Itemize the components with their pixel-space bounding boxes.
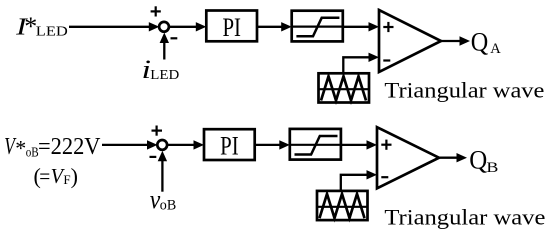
- svg-text:=: =: [39, 163, 50, 188]
- wire limiter to comparator (row 2): [341, 144, 367, 146]
- wire G1 to comparator minus input: [343, 57, 369, 73]
- wire input to summing junction S2: [102, 144, 148, 146]
- limiter (saturation) block row 2: [290, 129, 341, 160]
- svg-text:LED: LED: [36, 25, 68, 40]
- svg-text:A: A: [490, 41, 501, 57]
- wire input to summing junction: [69, 26, 150, 28]
- svg-text:oB: oB: [26, 146, 39, 161]
- label (=VF): [34, 163, 78, 188]
- svg-text:Triangular wave: Triangular wave: [384, 205, 545, 230]
- plus sign at summing junction S2: [152, 126, 163, 136]
- svg-text:*: *: [15, 136, 26, 161]
- svg-text:Triangular wave: Triangular wave: [384, 77, 544, 102]
- minus sign inside comparator U2: [383, 59, 390, 61]
- triangular wave generator box G1: [319, 73, 370, 102]
- label QA: [471, 27, 501, 57]
- svg-text:PI: PI: [220, 132, 239, 161]
- svg-text:PI: PI: [222, 13, 241, 42]
- label V*oB=222V: [4, 134, 101, 161]
- svg-text:B: B: [486, 160, 498, 176]
- wire PI to limiter: [257, 26, 282, 28]
- output wire QB: [439, 157, 458, 159]
- label voB: [150, 185, 176, 214]
- comparator U4 (triangle): [377, 127, 439, 188]
- label QB: [469, 146, 498, 176]
- svg-text:oB: oB: [160, 197, 176, 213]
- feedback arrow iLED into S1: [163, 41, 165, 60]
- label iLED: [142, 55, 180, 84]
- minus sign inside comparator U4: [381, 176, 388, 178]
- limiter (saturation) block: [292, 11, 343, 42]
- svg-text:Q: Q: [469, 146, 487, 175]
- wire limiter to comparator: [343, 26, 369, 28]
- minus sign at summing junction S2: [150, 156, 157, 158]
- plus sign at summing junction S1: [151, 6, 161, 16]
- comparator U2 (triangle): [379, 10, 441, 72]
- svg-text:): ): [71, 164, 78, 189]
- svg-text:=222V: =222V: [38, 134, 101, 160]
- summing junction S1: [159, 22, 169, 32]
- svg-text:F: F: [63, 172, 70, 187]
- svg-text:LED: LED: [150, 68, 179, 83]
- PI block U1: [206, 11, 257, 42]
- PI block U3: [204, 129, 255, 160]
- wire S1 to PI box: [169, 26, 197, 28]
- label I*LED: [15, 12, 68, 41]
- wire G2 to comparator minus input: [341, 175, 367, 191]
- summing junction S2: [157, 140, 167, 150]
- output wire QA: [441, 40, 461, 42]
- plus sign inside comparator U2: [383, 22, 393, 32]
- minus sign at summing junction S1: [171, 37, 178, 39]
- triangular wave generator box G2: [317, 191, 368, 220]
- feedback arrow voB into S2: [161, 159, 163, 192]
- wire PI to limiter (row 2): [255, 144, 280, 146]
- svg-text:Q: Q: [471, 27, 489, 56]
- plus sign inside comparator U4: [381, 140, 391, 150]
- wire S2 to PI box: [167, 144, 194, 146]
